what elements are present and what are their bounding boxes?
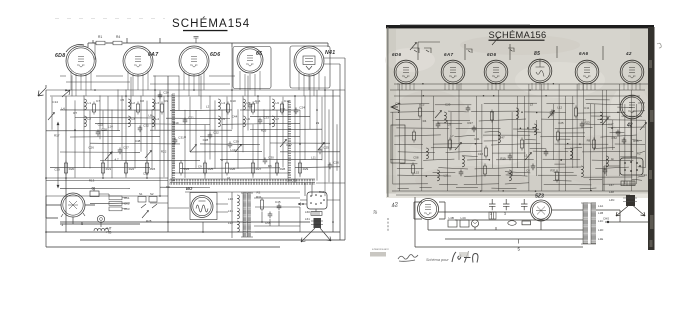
node CHS bbox=[607, 221, 609, 223]
svg-text:R26: R26 bbox=[230, 167, 236, 171]
svg-text:C48: C48 bbox=[135, 139, 141, 143]
resistor R22 bbox=[124, 161, 127, 176]
svg-text:C32: C32 bbox=[143, 124, 149, 128]
svg-text:6A7: 6A7 bbox=[148, 52, 159, 58]
svg-text:R9: R9 bbox=[166, 185, 170, 189]
svg-text:C17: C17 bbox=[286, 143, 292, 147]
inductor L13a bbox=[218, 99, 220, 110]
shield arc V1 bbox=[66, 45, 84, 52]
svg-text:R4: R4 bbox=[116, 35, 120, 39]
potentiometer P12 bbox=[492, 38, 499, 46]
svg-text:C9: C9 bbox=[164, 99, 168, 103]
svg-text:C10: C10 bbox=[230, 99, 236, 103]
svg-text:L4B: L4B bbox=[449, 216, 454, 220]
wire heater bus bbox=[46, 76, 345, 96]
svg-text:6A6: 6A6 bbox=[579, 51, 588, 56]
svg-text:C11: C11 bbox=[584, 106, 589, 110]
resistor R23 bbox=[145, 161, 148, 176]
wire top feed bbox=[88, 38, 328, 47]
svg-text:R28: R28 bbox=[280, 167, 286, 171]
tube V3 bbox=[179, 46, 209, 76]
inductor L11b bbox=[128, 116, 130, 127]
svg-text:L1D: L1D bbox=[598, 228, 603, 232]
svg-text:SCHÉMA156: SCHÉMA156 bbox=[489, 30, 547, 40]
svg-text:C27: C27 bbox=[123, 146, 129, 150]
switch S3 bbox=[508, 48, 514, 52]
page tone blotches bbox=[390, 35, 645, 194]
svg-text:C5: C5 bbox=[120, 98, 124, 102]
svg-text:85: 85 bbox=[534, 51, 540, 57]
svg-text:R2: R2 bbox=[637, 151, 641, 155]
gang comb A bbox=[172, 94, 175, 182]
svg-text:6s: 6s bbox=[92, 187, 96, 191]
svg-text:L4C: L4C bbox=[461, 216, 467, 220]
switch block SA bbox=[138, 197, 157, 209]
capacitor C28 bbox=[96, 130, 101, 137]
svg-text:C29: C29 bbox=[445, 102, 451, 106]
svg-text:L9: L9 bbox=[316, 121, 320, 125]
svg-text:N41: N41 bbox=[325, 50, 335, 56]
signature squiggle bbox=[398, 255, 418, 262]
svg-text:R12: R12 bbox=[508, 172, 514, 176]
capacitor C25 bbox=[318, 148, 323, 155]
svg-text:R15: R15 bbox=[419, 103, 425, 107]
inductor L14a bbox=[243, 99, 245, 110]
inductor L11a bbox=[128, 99, 130, 110]
svg-text:C63: C63 bbox=[124, 207, 130, 211]
gray smudge 1 bbox=[370, 252, 386, 257]
tube U1 bbox=[394, 60, 418, 84]
svg-text:+TB: +TB bbox=[106, 231, 112, 235]
wire N41 to edge bbox=[324, 58, 345, 96]
svg-text:R3: R3 bbox=[257, 190, 261, 194]
resistor R118 bbox=[411, 163, 414, 176]
resistor R15 bbox=[280, 102, 283, 115]
resistor R25 bbox=[203, 161, 206, 176]
svg-text:L21: L21 bbox=[444, 173, 449, 177]
inductor L128 bbox=[444, 112, 446, 123]
inductor L10b bbox=[84, 116, 86, 127]
svg-text:L9: L9 bbox=[448, 122, 452, 126]
left page border bbox=[387, 27, 388, 197]
svg-text:5Z3: 5Z3 bbox=[535, 194, 544, 200]
dotted shield band upper bbox=[170, 179, 315, 181]
inductor L104 bbox=[462, 156, 464, 167]
tube V4 bbox=[237, 47, 263, 73]
cap stub C51 bbox=[194, 36, 199, 43]
wire r-top bbox=[390, 42, 648, 96]
antenna arrow bbox=[38, 85, 46, 96]
wire vertical mesh bbox=[52, 42, 337, 196]
potentiometer P2 bbox=[105, 153, 112, 161]
potentiometer P1 bbox=[48, 113, 55, 121]
svg-text:R29: R29 bbox=[303, 167, 309, 171]
resistor R29 bbox=[298, 161, 301, 176]
svg-text:L2: L2 bbox=[88, 117, 92, 121]
svg-text:R27: R27 bbox=[468, 121, 474, 125]
svg-text:CHS: CHS bbox=[603, 217, 609, 221]
svg-text:C52: C52 bbox=[612, 136, 618, 140]
tube V7 output BF bbox=[191, 196, 213, 218]
capacitor C24 bbox=[294, 108, 299, 115]
svg-text:L3: L3 bbox=[156, 101, 160, 105]
wire r-verticals bbox=[393, 84, 646, 191]
svg-text:R13: R13 bbox=[89, 178, 95, 182]
svg-text:L30: L30 bbox=[228, 197, 233, 201]
svg-text:L12: L12 bbox=[557, 105, 562, 109]
shield box V5 bbox=[290, 46, 330, 88]
AVC arrow line bbox=[57, 124, 59, 186]
svg-text:R24: R24 bbox=[184, 167, 190, 171]
svg-text:C25: C25 bbox=[323, 146, 329, 150]
wire r-rows bbox=[390, 100, 648, 195]
svg-text:C28: C28 bbox=[203, 138, 209, 142]
pilot lamp bbox=[471, 220, 478, 227]
small oval part bbox=[508, 221, 516, 226]
svg-text:R17: R17 bbox=[54, 134, 60, 138]
svg-text:L1B: L1B bbox=[598, 211, 603, 215]
svg-text:L5: L5 bbox=[247, 101, 251, 105]
gang comb B bbox=[288, 101, 291, 182]
tube U7 bbox=[620, 95, 644, 119]
svg-text:C24: C24 bbox=[299, 106, 305, 110]
switch S1 bbox=[412, 48, 431, 53]
socket pins bbox=[310, 194, 325, 205]
right dark bar bbox=[648, 27, 655, 250]
svg-text:C23: C23 bbox=[263, 116, 269, 120]
svg-text:R1: R1 bbox=[98, 35, 102, 39]
capacitor C30 bbox=[263, 158, 268, 165]
svg-text:L1: L1 bbox=[88, 101, 92, 105]
tube U8 output bbox=[418, 199, 439, 220]
wire spk feed bbox=[604, 119, 631, 191]
svg-text:C25: C25 bbox=[558, 121, 564, 125]
speaker cone legs bbox=[301, 228, 331, 242]
svg-text:C28: C28 bbox=[101, 128, 107, 132]
svg-text:L47: L47 bbox=[609, 183, 614, 187]
dotted shield band lower bbox=[170, 182, 315, 184]
svg-text:C22: C22 bbox=[213, 131, 219, 135]
svg-text:L32: L32 bbox=[228, 221, 233, 225]
svg-text:L6: L6 bbox=[227, 176, 231, 180]
capacitor C21 bbox=[183, 118, 188, 125]
wire transformer frame bbox=[581, 203, 596, 244]
svg-text:R19: R19 bbox=[173, 121, 179, 125]
inductor L12b bbox=[152, 116, 154, 127]
svg-text:L4: L4 bbox=[222, 101, 226, 105]
svg-text:C39: C39 bbox=[54, 168, 60, 172]
inductor L119 bbox=[437, 170, 439, 181]
output transformer T1 bbox=[243, 193, 251, 237]
title underline 156 bbox=[489, 40, 545, 41]
wire bottom buses right bbox=[415, 197, 648, 247]
svg-text:C21: C21 bbox=[188, 116, 194, 120]
connector strip bbox=[311, 212, 322, 216]
resistor R26 bbox=[225, 161, 228, 176]
capacitor C132 bbox=[550, 110, 555, 117]
capacitor C29 bbox=[228, 142, 233, 149]
wire right tube pins bbox=[398, 83, 640, 90]
shield bracket U8 bbox=[414, 202, 445, 219]
tube U9 rectifier 5Z3 bbox=[531, 200, 552, 221]
antenna arrow 2 bbox=[62, 90, 70, 97]
right junction dots bbox=[398, 83, 619, 192]
capacitor C26 bbox=[328, 163, 333, 170]
svg-text:C62: C62 bbox=[124, 202, 130, 206]
svg-text:C36: C36 bbox=[291, 178, 297, 182]
svg-text:L17: L17 bbox=[609, 122, 614, 126]
inductor L107 bbox=[498, 132, 500, 143]
capacitor C56 bbox=[277, 204, 282, 211]
svg-text:R35: R35 bbox=[633, 139, 639, 143]
inductor Lch bbox=[94, 229, 108, 231]
potentiometer P10 bbox=[410, 43, 417, 51]
svg-text:C26: C26 bbox=[88, 145, 94, 149]
svg-text:L1A: L1A bbox=[598, 204, 603, 208]
potentiometer P3 bbox=[145, 151, 152, 159]
power transformer T2 bbox=[583, 203, 596, 244]
svg-text:L60: L60 bbox=[305, 210, 310, 214]
dial lamp bbox=[97, 215, 104, 222]
tube V6 pin ticks bbox=[61, 213, 85, 217]
svg-text:L1E: L1E bbox=[598, 237, 603, 241]
top black bar bbox=[386, 25, 654, 28]
inductor L15a bbox=[272, 99, 274, 110]
arrow into socket bbox=[298, 203, 307, 205]
svg-text:C31: C31 bbox=[178, 136, 184, 140]
resistor R10 bbox=[92, 102, 95, 115]
striped cap bbox=[489, 212, 496, 219]
svg-text:C9: C9 bbox=[198, 164, 202, 168]
resistor R1 bbox=[94, 41, 108, 45]
inductor T1 primary c bbox=[237, 221, 239, 232]
potentiometer P4 bbox=[190, 145, 197, 153]
wire tube pin leads bbox=[71, 71, 319, 96]
svg-text:S1: S1 bbox=[139, 192, 143, 196]
svg-text:L6: L6 bbox=[247, 117, 251, 121]
svg-text:3: 3 bbox=[504, 212, 506, 216]
resistor R106 bbox=[484, 146, 487, 159]
scanned page background bbox=[386, 27, 654, 198]
speaker magnet right bbox=[626, 195, 635, 206]
inductor L134 bbox=[600, 112, 602, 123]
shield box V7 bbox=[190, 193, 217, 220]
resistor R12 bbox=[160, 102, 163, 115]
resistor R21 bbox=[101, 161, 104, 176]
tube U3 bbox=[484, 60, 508, 84]
svg-text:3: 3 bbox=[490, 212, 492, 216]
resistor R4 bbox=[111, 41, 125, 45]
wire grid rows bbox=[46, 110, 345, 204]
potentiometer P17 bbox=[525, 153, 532, 161]
svg-text:R28: R28 bbox=[146, 219, 152, 223]
svg-text:4n: 4n bbox=[611, 157, 615, 161]
speaker magnet bbox=[314, 218, 322, 228]
potentiometer P15 bbox=[640, 123, 647, 131]
resistor R31 bbox=[260, 198, 263, 212]
resistor R112 bbox=[556, 130, 559, 143]
svg-text:R7: R7 bbox=[73, 111, 77, 115]
resistor R133 bbox=[574, 106, 577, 119]
capacitor C22 bbox=[208, 133, 213, 140]
page vignette bbox=[386, 29, 396, 197]
page bottom fade bbox=[386, 194, 654, 199]
inductor L131 bbox=[516, 108, 518, 119]
wire bottom buses bbox=[46, 76, 345, 247]
filter capacitor block bbox=[109, 196, 127, 211]
corner curl mark bbox=[657, 43, 661, 48]
svg-text:R23: R23 bbox=[584, 121, 590, 125]
resistor R124 bbox=[555, 170, 558, 183]
resistor R24 bbox=[179, 161, 182, 176]
inductor L101 bbox=[426, 148, 428, 159]
svg-text:C41: C41 bbox=[474, 137, 480, 141]
tube V1 bbox=[66, 46, 96, 76]
resistor R14 bbox=[251, 102, 254, 115]
dashed pencil line bbox=[387, 218, 389, 232]
connector strip right bbox=[621, 181, 635, 186]
resistor R11 bbox=[136, 102, 139, 115]
svg-text:L8: L8 bbox=[148, 114, 152, 118]
svg-text:Schéma pour: Schéma pour bbox=[426, 258, 449, 262]
speaker socket block bbox=[307, 192, 327, 209]
svg-text:C26: C26 bbox=[333, 161, 339, 165]
inductor T1 primary a bbox=[237, 195, 239, 206]
svg-text:R31: R31 bbox=[256, 195, 262, 199]
svg-text:C44: C44 bbox=[232, 114, 238, 118]
wire bf leads bbox=[168, 204, 228, 232]
svg-text:R27: R27 bbox=[256, 167, 262, 171]
svg-text:C14: C14 bbox=[52, 100, 58, 104]
potentiometer P13 bbox=[548, 111, 555, 119]
socket pins right bbox=[624, 161, 641, 172]
svg-text:a Gamma amt: a Gamma amt bbox=[372, 247, 389, 251]
svg-text:4.7: 4.7 bbox=[114, 157, 119, 161]
svg-text:R20: R20 bbox=[69, 167, 75, 171]
svg-text:R22: R22 bbox=[129, 167, 135, 171]
inductor L122 bbox=[509, 170, 511, 181]
svg-text:L2: L2 bbox=[206, 104, 210, 108]
capacitor C120 bbox=[459, 170, 464, 177]
tube U2 bbox=[441, 60, 465, 84]
svg-text:L31: L31 bbox=[228, 209, 233, 213]
svg-text:C61: C61 bbox=[124, 196, 130, 200]
switch S2 bbox=[466, 49, 472, 53]
svg-text:L15: L15 bbox=[414, 171, 419, 175]
capacitor C31 bbox=[173, 138, 178, 145]
svg-text:L14: L14 bbox=[108, 124, 113, 128]
capacitor C108 bbox=[508, 154, 513, 161]
junction dots bbox=[45, 89, 334, 233]
svg-text:C20: C20 bbox=[163, 91, 169, 95]
svg-text:C18: C18 bbox=[478, 152, 484, 156]
potentiometer P6 bbox=[280, 140, 287, 148]
svg-text:L4: L4 bbox=[61, 107, 65, 111]
capacitor C123 bbox=[531, 164, 536, 171]
svg-text:L4N: L4N bbox=[609, 198, 614, 202]
svg-text:6D8: 6D8 bbox=[55, 53, 65, 59]
title underline 154 bbox=[183, 30, 228, 31]
svg-text:C29: C29 bbox=[233, 140, 239, 144]
scan artifact faint dashes bbox=[55, 18, 165, 20]
capacitor C126 bbox=[603, 168, 608, 175]
inductor L110 bbox=[534, 124, 536, 135]
capacitor C23 bbox=[258, 118, 263, 125]
svg-text:R6: R6 bbox=[268, 164, 272, 168]
resistor R28 bbox=[275, 161, 278, 176]
svg-text:6A7: 6A7 bbox=[444, 52, 453, 57]
tube V5 tuning eye N41 bbox=[294, 46, 324, 76]
bar part bbox=[522, 221, 531, 225]
svg-text:L7: L7 bbox=[450, 134, 454, 138]
svg-text:R8: R8 bbox=[587, 139, 591, 143]
inductor L125 bbox=[581, 166, 583, 177]
svg-text:L61: L61 bbox=[305, 217, 310, 221]
svg-text:6D6: 6D6 bbox=[487, 52, 496, 57]
svg-text:C33: C33 bbox=[253, 101, 259, 105]
inductor L12a bbox=[152, 99, 154, 110]
capacitor C105 bbox=[472, 126, 477, 133]
capacitor C55 bbox=[268, 212, 273, 219]
svg-text:65: 65 bbox=[256, 51, 262, 57]
svg-text:6D6: 6D6 bbox=[210, 52, 220, 58]
tube U4 bbox=[528, 59, 552, 83]
svg-text:C31: C31 bbox=[280, 107, 286, 111]
resistor R121 bbox=[483, 164, 486, 177]
svg-text:C12: C12 bbox=[143, 172, 149, 176]
svg-text:L4: L4 bbox=[156, 117, 160, 121]
svg-text:R4: R4 bbox=[423, 119, 427, 123]
svg-text:C30: C30 bbox=[268, 156, 274, 160]
tube V2 bbox=[123, 46, 153, 76]
svg-text:42: 42 bbox=[625, 51, 632, 56]
potentiometer P11 bbox=[435, 111, 442, 119]
svg-text:L48: L48 bbox=[609, 190, 614, 194]
svg-text:C12: C12 bbox=[284, 99, 290, 103]
capacitor C114 bbox=[580, 122, 585, 129]
speaker socket right bbox=[620, 158, 643, 175]
capacitor C135 bbox=[622, 138, 627, 145]
antenna arrow right bbox=[391, 103, 400, 111]
tube U5 bbox=[575, 60, 599, 84]
svg-text:C58: C58 bbox=[413, 155, 419, 159]
potentiometer P14 bbox=[602, 118, 609, 126]
handwritten 1945 bbox=[452, 252, 478, 263]
svg-text:C45: C45 bbox=[275, 200, 281, 204]
resistor R109 bbox=[520, 138, 523, 151]
inductor L10a bbox=[84, 99, 86, 110]
tube V6 rectifier bbox=[61, 193, 85, 217]
gray smudge 2 bbox=[459, 252, 469, 257]
resistor R115 bbox=[592, 138, 595, 151]
resistor R20 bbox=[64, 161, 67, 176]
resistor R103 bbox=[448, 138, 451, 151]
fuse 6s bbox=[90, 191, 99, 197]
svg-text:R25: R25 bbox=[261, 128, 267, 132]
svg-text:L5: L5 bbox=[222, 117, 226, 121]
capacitor C33 bbox=[248, 103, 253, 110]
inductor L113 bbox=[570, 148, 572, 159]
svg-text:C7: C7 bbox=[96, 99, 100, 103]
inductor T1 primary b bbox=[237, 208, 239, 219]
tube U6 bbox=[620, 60, 644, 84]
resistor R127 bbox=[418, 106, 421, 119]
svg-text:BO: BO bbox=[186, 186, 193, 191]
svg-text:R21: R21 bbox=[106, 167, 112, 171]
inductor L14b bbox=[243, 116, 245, 127]
capacitor C129 bbox=[466, 106, 471, 113]
electrolytic caps bbox=[489, 199, 528, 210]
